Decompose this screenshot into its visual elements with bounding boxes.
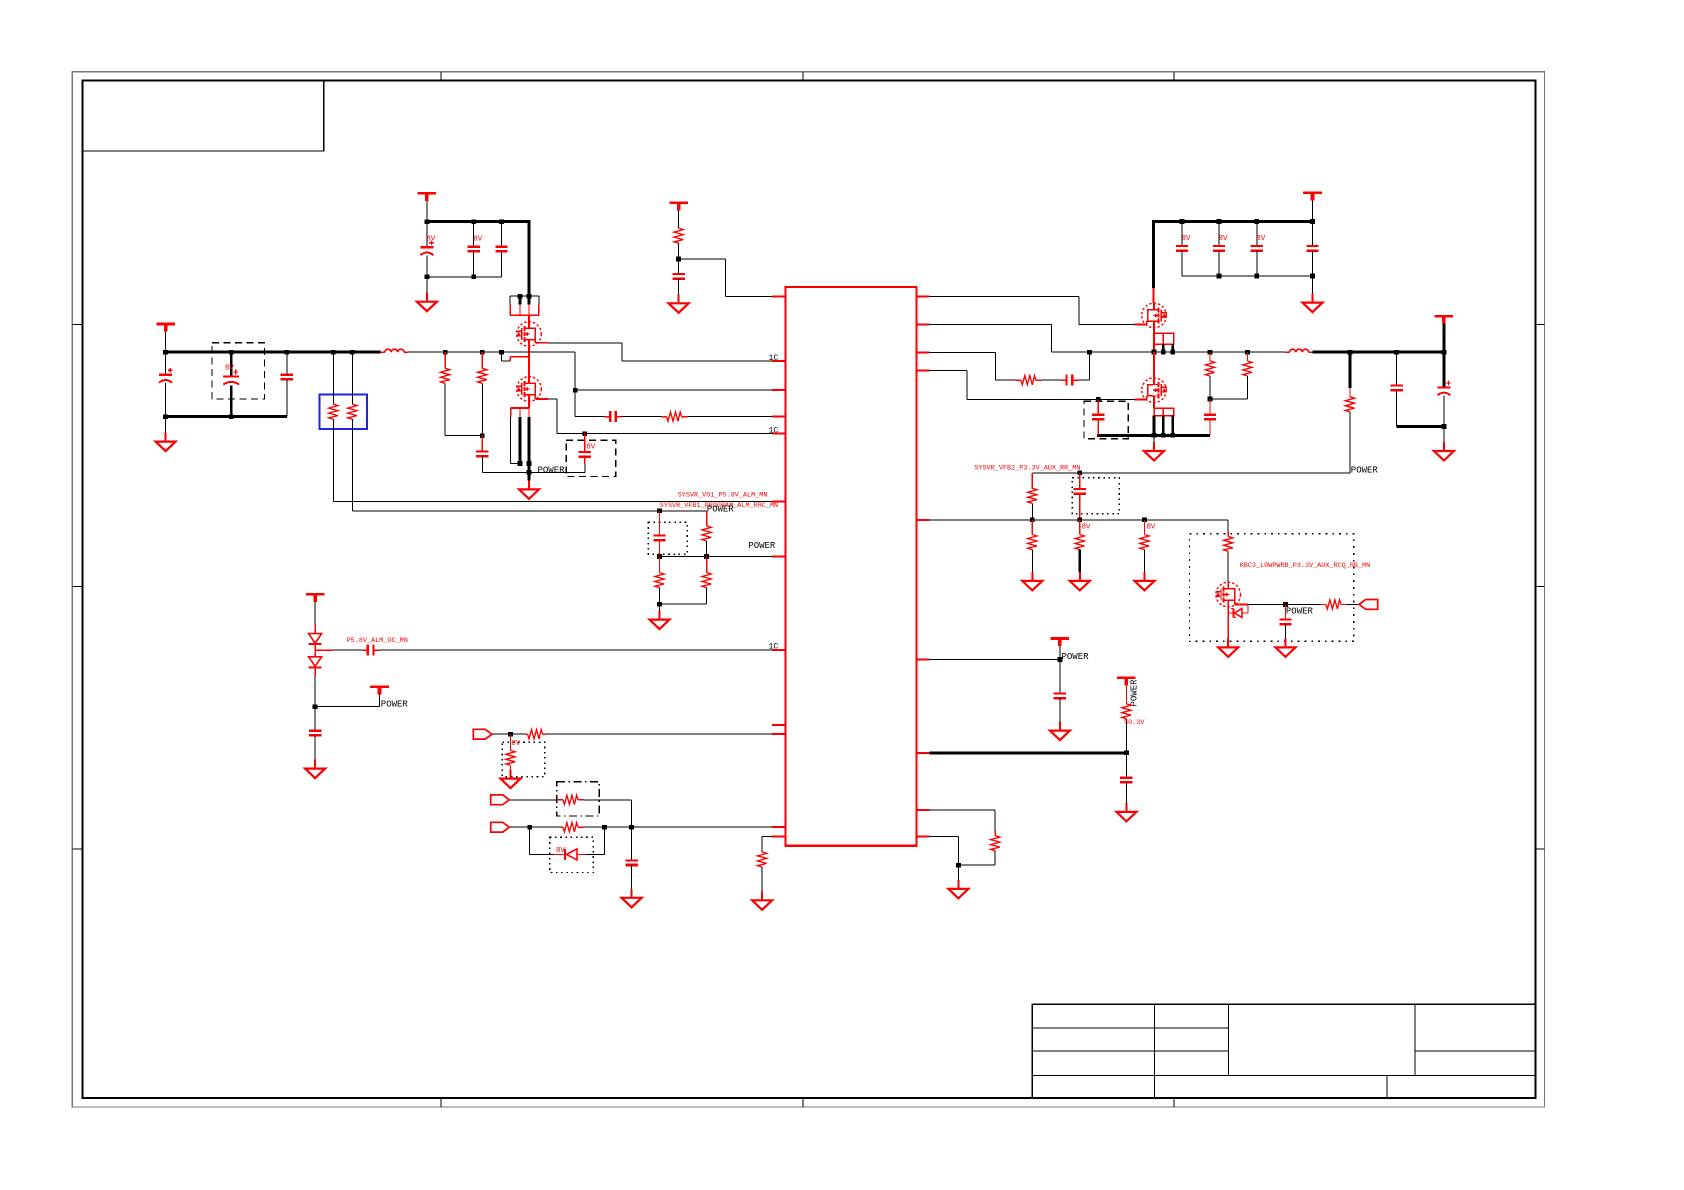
capacitor C2 <box>468 222 483 277</box>
resistor R19 <box>1028 473 1037 522</box>
capacitor C24 <box>1074 473 1086 522</box>
wire D2 to node <box>313 676 318 709</box>
wire FB node to IC <box>660 556 786 558</box>
wire pin810 to R26 <box>917 810 996 836</box>
wire Q5 source to ground <box>1227 607 1229 639</box>
label POWER <box>748 541 776 551</box>
ground below C13 <box>305 760 325 779</box>
power symbol at C26 <box>1051 639 1070 660</box>
label 8V <box>512 740 521 748</box>
capacitor C4 input electrolytic <box>159 352 173 417</box>
transistor Q1 (high-side FET) <box>516 315 541 346</box>
wire pin753 (thick) <box>917 750 1129 755</box>
wire diode loop <box>530 827 554 854</box>
ground below C27 <box>1116 803 1136 822</box>
wire J2 <box>510 799 557 801</box>
resistor R10 series <box>526 730 786 739</box>
wire <box>1042 379 1061 381</box>
capacitor C10 <box>672 259 684 296</box>
resistor R4 <box>478 352 487 438</box>
dotted box around R11 <box>502 742 544 776</box>
op-amp U1 controller IC <box>786 287 917 846</box>
power symbol VCC8V top-left <box>418 193 437 221</box>
dual-FET package PK3 below Q3 <box>1152 328 1176 355</box>
ground below Q4 <box>1144 435 1164 460</box>
label 1C pin <box>769 643 779 652</box>
capacitor C16 <box>1213 222 1228 276</box>
label net P5.8V_ALM_OC_MN <box>347 637 408 645</box>
power symbol VCC right cluster <box>1303 193 1322 222</box>
wire IC pin to R14 <box>762 837 785 853</box>
wire to IC pin 1C <box>379 649 786 651</box>
resistor R16 pullup <box>1205 352 1214 401</box>
svg-text:SYSVR_VO1_P5.8V_ALM_MN: SYSVR_VO1_P5.8V_ALM_MN <box>678 491 768 499</box>
ground below C1 <box>417 277 437 311</box>
capacitor C22 <box>1390 352 1402 426</box>
svg-text:8V: 8V <box>1256 235 1265 243</box>
capacitor C11 <box>653 511 665 559</box>
wire SW rail right <box>1051 350 1285 355</box>
dual-FET package PK1 above Q1 <box>510 294 539 315</box>
wire SW to IC pins <box>573 352 786 392</box>
svg-text:POWER: POWER <box>1062 652 1090 662</box>
resistor R21 <box>1075 520 1084 573</box>
wire net SYSVR_VO1_P5.8V_ALM_MN <box>333 501 785 503</box>
wire 8V rail top-left (thick) <box>427 220 531 223</box>
inductor L2 <box>1285 349 1313 352</box>
diode D2 <box>309 650 322 676</box>
svg-text:8V: 8V <box>512 740 521 748</box>
resistor R6 <box>674 228 683 261</box>
diode D1 <box>309 624 322 650</box>
resistor R22 <box>1140 520 1149 573</box>
connector J4 <box>1359 600 1378 610</box>
capacitor C9 series <box>604 411 621 422</box>
wire pin836 right <box>917 837 961 868</box>
wire input bottom rail (thick) <box>163 414 287 419</box>
resistor R18 to VFB2 <box>1345 352 1354 473</box>
capacitor C3 <box>495 222 507 277</box>
resistor R3 <box>441 352 483 436</box>
wire Q1 source to Q2 drain <box>528 346 530 376</box>
ground below C14 <box>622 889 642 908</box>
wire 8V rail right (thick) <box>1152 219 1315 224</box>
capacitor C13 <box>309 707 321 761</box>
svg-text:P5.8V_ALM_OC_MN: P5.8V_ALM_OC_MN <box>347 637 408 645</box>
capacitor C15 <box>1176 222 1191 276</box>
wire pin370 to Q4 gate <box>917 371 1147 402</box>
wire pin660 POWER net <box>917 657 1063 662</box>
label S0.3V <box>1124 719 1145 727</box>
label POWER <box>381 699 409 709</box>
power symbol VIN left <box>156 324 175 352</box>
wire SW rail left <box>408 350 575 355</box>
ground below right cluster <box>1303 276 1323 312</box>
wire Q2 source to ground (thick) <box>527 464 532 481</box>
label POWER <box>1351 465 1379 475</box>
wire J3 to IC <box>510 825 563 830</box>
ground below R22 <box>1135 572 1155 591</box>
wire Q5 gate net <box>1248 602 1320 607</box>
resistor R26 <box>958 836 999 866</box>
connector J3 <box>491 822 510 832</box>
wire snubber to rail <box>1079 352 1090 380</box>
label 1C pin <box>769 426 779 435</box>
capacitor C27 <box>1120 753 1132 804</box>
connector J2 <box>491 795 510 805</box>
svg-text:SYSVR_VFB2_P3.3V_AUX_RR_MN: SYSVR_VFB2_P3.3V_AUX_RR_MN <box>974 465 1080 473</box>
resistor R11 pulldown <box>506 734 515 770</box>
dual-FET package PK2 below Q2 <box>511 401 532 466</box>
wire FB2 node to IC <box>917 517 1229 522</box>
dual-FET package PK4 below Q4 <box>1154 403 1174 436</box>
wire to IC VCC pin <box>679 259 786 297</box>
label 1C pin <box>769 354 779 363</box>
svg-text:S0.3V: S0.3V <box>1124 719 1145 727</box>
ground below R14 <box>752 891 772 910</box>
capacitor C8 <box>476 436 488 473</box>
connector J1 <box>473 729 492 739</box>
wire Q2 source stub <box>535 395 785 436</box>
transistor Q4 (low-side FET) <box>1142 352 1167 402</box>
ground below C26 <box>1050 722 1070 741</box>
wire Q4 source rail (thick) <box>1097 433 1210 438</box>
capacitor C12 series <box>362 645 379 656</box>
ground below output caps <box>1434 427 1454 461</box>
wire right cluster bottom <box>1182 274 1315 279</box>
power symbol P5.8V <box>306 594 325 624</box>
capacitor C6 <box>281 352 293 417</box>
dashed box around C7 <box>566 440 615 476</box>
power symbol at R25 <box>1117 678 1136 704</box>
wire 8V rail down to Q1 (thick) <box>528 222 531 297</box>
svg-text:POWER: POWER <box>1351 465 1379 475</box>
resistor R7 <box>702 511 711 559</box>
dotted box around D3 <box>550 837 593 872</box>
resistor R23 <box>1224 536 1233 582</box>
svg-text:POWER: POWER <box>748 541 776 551</box>
capacitor C25 <box>1279 604 1291 639</box>
svg-text:POWER: POWER <box>381 699 409 709</box>
ground below C10 <box>669 294 689 313</box>
zener D4 gate clamp <box>1228 604 1248 617</box>
power symbol output <box>1435 316 1454 354</box>
wire diode loop right <box>586 827 604 854</box>
wire to Q5 drain <box>1227 520 1229 537</box>
ground below R20 <box>1022 572 1042 591</box>
label net SYSVR_VO1_P5.8V_ALM_MN <box>678 491 768 499</box>
svg-text:8V: 8V <box>1219 235 1228 243</box>
resistor R25 <box>1122 704 1131 753</box>
ground below node <box>948 865 968 898</box>
ground below R21 <box>1070 572 1090 591</box>
svg-text:8V: 8V <box>473 236 482 244</box>
label POWER <box>707 505 735 515</box>
wire pin325 to SW rail <box>917 324 1052 352</box>
svg-text:8V: 8V <box>225 365 234 373</box>
wire input rail (thick) <box>163 350 380 355</box>
svg-text:POWER: POWER <box>1130 679 1140 707</box>
svg-text:1C: 1C <box>769 643 779 652</box>
transistor Q5 <box>1215 582 1240 607</box>
svg-text:KBC3_LOWPWRB_P3.3V_AUX_RCQ_RB_: KBC3_LOWPWRB_P3.3V_AUX_RCQ_RB_MN <box>1240 562 1371 570</box>
capacitor C5 8V electrolytic <box>223 352 239 417</box>
label 8V <box>1147 523 1156 531</box>
wire <box>622 416 662 418</box>
wire net SYSVR_VFB1 <box>352 508 706 513</box>
wire pin296 to Q3 gate <box>917 297 1147 325</box>
wire output caps bottom <box>1397 425 1444 428</box>
resistor R13 series <box>563 823 786 832</box>
ground below C25 <box>1276 638 1296 657</box>
label 8V <box>556 847 565 855</box>
resistor R14 <box>758 852 767 892</box>
capacitor C21 <box>1204 399 1216 435</box>
resistor R15 series <box>1015 376 1042 385</box>
transistor Q2 (low-side FET) <box>516 377 541 402</box>
dotted box around C11 <box>648 522 687 554</box>
ground below Q2 <box>519 480 539 499</box>
svg-text:8V: 8V <box>427 236 436 244</box>
wire 8V rail down to Q3 (thick) <box>1152 222 1155 304</box>
resistor R1 in blue box <box>329 352 338 501</box>
inductor L1 <box>380 349 408 352</box>
power symbol POWER branch <box>315 687 389 707</box>
label net KBC3_LOWPWRB_P3.3V_AUX_RCQ_RB_MN <box>1240 562 1371 570</box>
resistor R8 <box>655 557 664 607</box>
ground below R11 <box>501 770 521 789</box>
wire divider bottom <box>660 603 707 605</box>
label POWER <box>1062 652 1090 662</box>
resistor R17 pullup <box>1210 352 1252 399</box>
diode D3 <box>554 849 586 860</box>
label net SYSVR_VFB1_PROGRAM_ALM_RRC_MN <box>660 502 778 510</box>
wire C7 return to ground node <box>482 471 585 473</box>
ground below divider <box>650 604 670 629</box>
resistor R5 series <box>661 412 688 421</box>
dash-dot box around R12 <box>557 782 599 816</box>
wire J1 to IC <box>493 732 526 737</box>
node junction on 8V rail <box>425 219 504 224</box>
dotted box KBC3_LOWPWRB <box>1190 534 1354 642</box>
svg-text:8V: 8V <box>587 444 596 452</box>
svg-text:1C: 1C <box>769 426 779 435</box>
svg-text:8V: 8V <box>1147 523 1156 531</box>
wire Q5 gate stub <box>1235 600 1248 604</box>
wire cap cluster bottom <box>425 274 502 279</box>
dashed box around C20 <box>1084 401 1128 439</box>
wire snubber branch <box>575 390 604 416</box>
ground below Q5 <box>1218 638 1238 657</box>
capacitor C7 8V <box>579 434 596 473</box>
capacitor C23 electrolytic <box>1437 352 1451 429</box>
svg-text:1C: 1C <box>769 354 779 363</box>
label net SYSVR_VFB2_P3.3V_AUX_RR_MN <box>974 465 1080 473</box>
wire output rail (thick) <box>1313 350 1447 355</box>
transistor Q3 (high-side FET) <box>1142 303 1167 328</box>
capacitor C20 <box>1092 399 1104 435</box>
dashed box around C5 <box>212 343 265 399</box>
label POWER <box>538 466 566 476</box>
label POWER <box>1286 607 1314 617</box>
resistor R12 series <box>557 795 632 804</box>
capacitor C17 <box>1251 222 1266 276</box>
capacitor C19 series <box>1061 375 1079 386</box>
wire net SYSVR_VFB2_P3.3V_AUX_RR_MN <box>1032 470 1350 475</box>
svg-text:8V: 8V <box>1082 523 1091 531</box>
capacitor C14 <box>625 827 637 889</box>
wire Q1 source stub to IC <box>535 340 785 361</box>
ground below input caps <box>156 417 176 451</box>
resistor R24 series <box>1320 600 1359 609</box>
resistor R20 <box>1028 520 1037 573</box>
wire J2 down to J3 net <box>631 800 633 827</box>
wire SW-node S-bend <box>499 350 529 361</box>
blue box current-sense resistors <box>320 394 367 429</box>
capacitor C1 8V electrolytic <box>420 222 436 277</box>
svg-text:POWER: POWER <box>1286 607 1314 617</box>
svg-text:POWER: POWER <box>538 466 566 476</box>
resistor R9 <box>702 557 711 605</box>
label POWER rotated <box>1130 679 1140 707</box>
resistor R2 in blue box <box>348 352 357 511</box>
wire pin353 snubber <box>917 353 1016 381</box>
wire to IC pin <box>688 416 786 418</box>
wire net P5.8V_ALM_OC_MN <box>315 649 362 651</box>
capacitor C26 <box>1054 660 1066 723</box>
power symbol top-center <box>669 203 688 228</box>
svg-text:POWER: POWER <box>707 505 735 515</box>
capacitor C18 <box>1306 222 1318 276</box>
dotted box around C24 <box>1072 478 1119 514</box>
label 8V <box>1082 523 1091 531</box>
svg-text:8V: 8V <box>1182 235 1191 243</box>
stub unconnected IC pin <box>772 724 786 726</box>
